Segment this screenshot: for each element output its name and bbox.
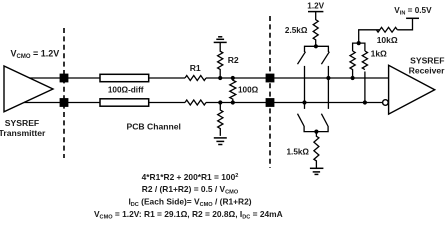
switch arm upper-right xyxy=(321,52,329,64)
wire bottom right xyxy=(206,102,383,104)
svg-text:PCB Channel: PCB Channel xyxy=(126,122,180,132)
transmission line box top (100 ohm diff) xyxy=(100,74,149,81)
dashed boundary line 2 xyxy=(269,16,271,168)
resistor 1.5k xyxy=(314,132,319,169)
supply 1.2V terminal bar xyxy=(308,11,323,13)
resistor 2.5k xyxy=(313,12,318,47)
switch arm upper-left xyxy=(298,52,306,64)
svg-text:4*R1*R2 + 200*R1 = 1002: 4*R1*R2 + 200*R1 = 1002 xyxy=(142,172,239,182)
svg-text:Transmitter: Transmitter xyxy=(0,128,46,138)
resistor 1k right xyxy=(362,51,367,70)
svg-text:1.5kΩ: 1.5kΩ xyxy=(287,147,310,156)
inverted ground above R2 xyxy=(214,37,227,43)
svg-text:VIN = 0.5V: VIN = 0.5V xyxy=(394,6,432,17)
junction dot 1k top xyxy=(357,41,361,45)
resistor R1 top zigzag xyxy=(185,76,206,81)
resistor 100 ohm vertical xyxy=(230,78,236,102)
upper-right switch column to top wire xyxy=(327,66,329,78)
junction dot right column/top wire xyxy=(326,76,330,80)
node square top-left xyxy=(60,74,69,83)
svg-text:R2 / (R1+R2) = 0.5 / VCMO: R2 / (R1+R2) = 0.5 / VCMO xyxy=(142,184,239,196)
receiver triangle xyxy=(389,65,435,114)
node square bottom-left xyxy=(60,98,69,107)
svg-text:10kΩ: 10kΩ xyxy=(377,35,398,45)
junction dot 100ohm top xyxy=(231,76,235,80)
right column crossing bottom wire xyxy=(327,78,329,109)
svg-text:VCMO = 1.2V: VCMO = 1.2V xyxy=(11,48,60,60)
VIN terminal bar xyxy=(406,17,419,19)
resistor R2 lower (to ground) xyxy=(218,103,223,136)
node square top-right xyxy=(266,74,275,83)
node square bottom-right xyxy=(266,98,275,107)
svg-text:Receiver: Receiver xyxy=(409,65,445,75)
wire VIN to 10k xyxy=(397,18,412,30)
upper-left switch column to bottom wire xyxy=(304,66,306,103)
ground below R2b xyxy=(214,138,227,145)
resistor 1k left xyxy=(350,51,355,76)
junction dot 1k-left/top wire xyxy=(351,76,355,80)
wire top right xyxy=(206,77,389,79)
junction dot R2/top wire xyxy=(218,76,222,80)
resistor 10k xyxy=(376,27,397,32)
svg-text:VCMO = 1.2V: R1 = 29.1Ω, R2 =: VCMO = 1.2V: R1 = 29.1Ω, R2 = 20.8Ω, IDC… xyxy=(94,209,283,221)
ground below 1.5k xyxy=(310,168,324,174)
wire bottom mid xyxy=(149,102,185,104)
svg-text:100Ω-diff: 100Ω-diff xyxy=(108,86,144,95)
transmitter triangle xyxy=(4,66,53,112)
1k right column crossing to bottom wire xyxy=(364,72,366,103)
receiver inverting bubble xyxy=(383,100,389,106)
switch arm lower-left xyxy=(298,114,305,126)
svg-text:SYSREF: SYSREF xyxy=(5,118,39,128)
svg-text:100Ω: 100Ω xyxy=(238,86,259,95)
lower-left switch stub xyxy=(304,103,306,109)
wire bottom xyxy=(24,102,100,104)
wire top mid xyxy=(149,77,185,79)
svg-text:SYSREF: SYSREF xyxy=(410,56,444,66)
switch top bar xyxy=(305,46,329,52)
switch arm lower-right xyxy=(321,114,328,126)
transmission line box bottom xyxy=(100,99,149,106)
junction dot R2b/bottom wire xyxy=(218,100,222,104)
dashed boundary line 1 xyxy=(63,28,65,158)
svg-text:1kΩ: 1kΩ xyxy=(371,49,387,59)
junction dot left column/bottom wire xyxy=(302,100,306,104)
svg-text:R2: R2 xyxy=(228,55,239,65)
svg-text:R1: R1 xyxy=(190,63,201,73)
svg-text:1.2V: 1.2V xyxy=(307,2,324,11)
svg-text:2.5kΩ: 2.5kΩ xyxy=(285,26,308,35)
resistor R2 xyxy=(218,42,223,78)
switch bottom bar xyxy=(304,126,328,132)
junction dot above 1.5k xyxy=(314,130,318,134)
junction dot 100ohm bottom xyxy=(231,100,235,104)
wire 10k to 1k junction xyxy=(359,30,380,43)
resistor R1 bottom zigzag xyxy=(185,100,206,105)
svg-text:IDC (Each Side)= VCMO / (R1+R2: IDC (Each Side)= VCMO / (R1+R2) xyxy=(128,196,251,208)
junction dot 1k-right/bottom wire xyxy=(363,100,367,104)
wire top xyxy=(29,77,100,79)
junction dot below 2.5k xyxy=(314,44,318,48)
1k top bar xyxy=(353,43,365,51)
